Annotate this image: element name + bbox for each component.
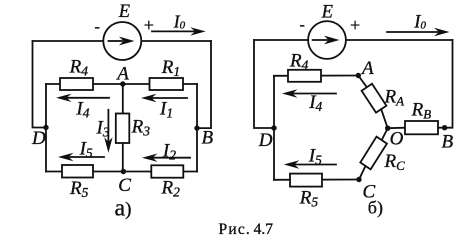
svg-text:D: D [31,128,46,149]
source arrow (b) [313,36,340,45]
wire inner left vertical (b) [273,76,275,180]
svg-text:E: E [118,2,130,22]
svg-text:R5: R5 [69,178,89,200]
node D (a) [43,125,48,130]
svg-text:+: + [350,15,360,35]
svg-text:R4: R4 [69,56,89,78]
wire top-right segment (a) [142,40,211,42]
node C (b) [356,177,361,182]
wire O to RC (b) [382,128,388,140]
resistor RB (b) [405,121,438,134]
wire outer-right (b) [445,40,453,128]
wire outer-left (b) [254,40,274,128]
arrow I0 (b) [387,28,450,36]
wire RC to C (b) [359,166,366,180]
svg-text:б): б) [368,198,383,219]
svg-text:B: B [202,128,214,149]
wire top-left segment (b) [254,39,308,41]
arrow I3 (a) [104,110,112,153]
wire bridge left vertical (a) [45,84,47,172]
svg-text:B: B [442,132,454,153]
svg-text:RC: RC [384,151,406,173]
arrow I0 (a) [152,27,206,35]
svg-text:C: C [118,175,131,196]
resistor R5 (a) [62,165,93,178]
svg-text:R4: R4 [289,51,309,73]
arrow I5 (b) [284,160,336,168]
arrow I4 (b) [282,89,336,97]
wire R4 row (b) [274,75,358,77]
svg-text:RA: RA [384,87,405,109]
arrow I5 (a) [58,153,104,161]
source E (a) [103,22,141,60]
source arrow (a) [109,37,135,46]
svg-text:I0: I0 [173,11,186,31]
resistor R1 (a) [150,78,184,90]
wire top-left segment (a) [33,40,103,42]
svg-text:E: E [321,2,333,22]
svg-text:I2: I2 [162,140,176,162]
arrow I4 (a) [56,94,109,102]
svg-text:-: - [95,19,100,36]
svg-text:R3: R3 [131,117,151,139]
wire bridge right vertical (a) [196,84,198,172]
wire RB to B (b) [438,127,445,129]
svg-text:RB: RB [411,100,432,122]
wire outer-right (a) [197,41,211,128]
node C (a) [121,169,126,174]
arrow I1 (a) [141,94,187,102]
svg-text:I0: I0 [413,12,426,32]
wire A to RA (b) [358,76,367,88]
svg-text:D: D [258,130,273,151]
resistor R4 (a) [60,78,93,90]
wire middle vertical (a) [122,84,124,172]
resistor R5 (b) [290,174,322,187]
svg-text:R1: R1 [161,57,180,79]
svg-text:I5: I5 [308,146,322,168]
svg-text:I1: I1 [159,99,173,121]
resistor R2 (a) [151,165,183,177]
resistor R4 (b) [288,70,321,82]
node A (b) [356,73,361,78]
svg-text:A: A [115,64,129,85]
svg-text:O: O [390,129,404,150]
node O (b) [385,126,390,131]
wire outer-left (a) [33,41,47,128]
node B (b) [442,125,447,130]
resistor RC (b) [360,137,387,170]
svg-text:I4: I4 [75,99,89,121]
wire RA to O (b) [381,109,388,128]
node B (a) [194,125,199,130]
svg-text:Рис. 4.7: Рис. 4.7 [219,221,274,238]
svg-text:а): а) [115,196,132,222]
wire O to RB (b) [388,127,405,130]
arrow I2 (a) [142,154,190,162]
resistor RA (b) [362,84,387,113]
svg-text:R2: R2 [161,178,181,200]
svg-text:R5: R5 [299,188,319,210]
wire bottom row (a) [46,171,197,173]
svg-text:I4: I4 [308,92,322,114]
node A (a) [120,81,125,86]
svg-text:A: A [360,58,374,79]
wire bottom row (b) [274,179,359,181]
wire bridge top row (a) [46,83,197,85]
resistor R3 (a) [116,114,130,144]
svg-text:I5: I5 [79,139,93,161]
source E (b) [308,21,346,59]
wire top-right segment (b) [347,39,453,41]
svg-text:-: - [300,17,305,34]
node D (b) [271,125,276,130]
